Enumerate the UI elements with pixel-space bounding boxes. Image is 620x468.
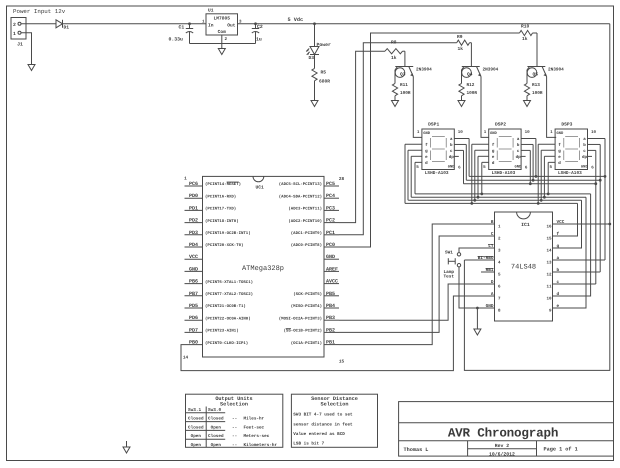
regulator U1 LM7805	[206, 14, 238, 35]
svg-text:PD0: PD0	[189, 193, 198, 199]
svg-text:2N3904: 2N3904	[548, 68, 564, 73]
svg-text:28: 28	[339, 177, 345, 182]
wire IC1 d output	[566, 194, 591, 296]
svg-text:14: 14	[546, 248, 552, 253]
svg-text:(PCINT20-XCK-T0): (PCINT20-XCK-T0)	[205, 243, 243, 248]
svg-text:B: B	[491, 220, 494, 225]
wire PB2 to IC1 C	[339, 236, 481, 332]
svg-text:(ADC0-PCINT8): (ADC0-PCINT8)	[291, 243, 322, 248]
ATmega left pin PD7	[185, 331, 203, 333]
svg-text:(MOSI-OC2A-PCINT3): (MOSI-OC2A-PCINT3)	[279, 316, 322, 321]
svg-text:Selection: Selection	[320, 402, 348, 408]
svg-text:(OC1A-PCINT1): (OC1A-PCINT1)	[291, 341, 322, 346]
svg-text:Q3: Q3	[400, 72, 406, 78]
svg-text:680R: 680R	[319, 79, 330, 85]
svg-text:--: --	[232, 417, 237, 422]
bus line segment a	[469, 175, 605, 177]
svg-text:SW3 BIT 4-7 used to set: SW3 BIT 4-7 used to set	[293, 412, 353, 418]
svg-text:VCC: VCC	[189, 254, 198, 260]
svg-text:IC1: IC1	[521, 222, 530, 228]
svg-text:PC2: PC2	[326, 218, 335, 224]
svg-text:16: 16	[546, 224, 552, 229]
wires DSP3 segment pins a b c	[588, 138, 606, 140]
resistor R5	[312, 68, 317, 80]
svg-text:--: --	[232, 443, 237, 448]
svg-text:Feet-sec: Feet-sec	[244, 425, 265, 430]
svg-text:Rev 2: Rev 2	[495, 443, 510, 449]
svg-text:GND: GND	[189, 266, 198, 272]
ATmega right pin PC0	[324, 246, 339, 248]
wire IC1 e output	[566, 197, 586, 308]
ATmega left pin PD5	[185, 307, 203, 309]
svg-text:SW1: SW1	[445, 251, 453, 256]
junction VCC pin16	[608, 223, 611, 226]
IC1 right pin 9 e	[553, 307, 567, 309]
svg-text:PD1: PD1	[189, 205, 198, 211]
svg-text:13: 13	[546, 260, 552, 265]
svg-text:Selection: Selection	[220, 402, 248, 408]
svg-text:PB2: PB2	[326, 327, 335, 333]
IC1 left pin 7 A	[481, 295, 495, 297]
wire Q5 emitter to DSP3 pin1	[547, 77, 557, 138]
ATmega left pin PD6	[185, 319, 203, 321]
ATmega left pin PB0	[185, 344, 203, 346]
svg-text:b: b	[557, 267, 560, 273]
table Sensor Distance Selection	[291, 394, 377, 447]
IC1 right pin 16 VCC	[553, 223, 567, 225]
svg-text:(PCINT7-XTAL2-TOSC2): (PCINT7-XTAL2-TOSC2)	[205, 292, 253, 297]
svg-text:PB0: PB0	[189, 340, 198, 346]
svg-text:AREF: AREF	[326, 266, 338, 272]
IC1 left pin 1 B	[481, 223, 495, 225]
svg-text:(PCINT16-RXD): (PCINT16-RXD)	[205, 194, 236, 199]
svg-text:Closed: Closed	[208, 433, 224, 439]
svg-text:a: a	[557, 256, 560, 261]
svg-text:PC4: PC4	[326, 193, 335, 199]
svg-text:PB4: PB4	[326, 303, 335, 309]
svg-text:PB1: PB1	[326, 340, 335, 346]
ground Q5	[526, 100, 528, 102]
ground R5	[314, 100, 316, 102]
svg-text:Open: Open	[211, 425, 222, 430]
IC1 right pin 11 c	[553, 283, 567, 285]
ATmega left pin VCC	[185, 258, 203, 260]
svg-text:Kilometers-hr: Kilometers-hr	[244, 442, 278, 448]
svg-text:Open: Open	[211, 443, 222, 448]
IC1 left pin 2 C	[481, 235, 495, 237]
svg-text:(PCINT23-AIN1): (PCINT23-AIN1)	[205, 329, 239, 334]
wire PB1 to IC1 B	[339, 224, 481, 345]
svg-text:10/6/2012: 10/6/2012	[489, 451, 515, 457]
svg-text:AVCC: AVCC	[326, 279, 338, 285]
svg-text:Closed: Closed	[188, 416, 204, 422]
svg-text:Q5: Q5	[533, 72, 539, 78]
svg-text:2: 2	[13, 22, 16, 28]
svg-text:1k: 1k	[522, 36, 528, 42]
bus line segment d	[415, 193, 591, 195]
svg-text:GND: GND	[423, 131, 431, 136]
svg-text:C1: C1	[179, 25, 185, 31]
svg-text:f: f	[557, 231, 560, 237]
svg-text:DSP2: DSP2	[495, 122, 506, 128]
ATmega right pin PC2	[324, 222, 339, 224]
resistor R12	[459, 83, 464, 95]
LED D3	[310, 47, 319, 55]
ATmega right pin AVCC	[324, 283, 339, 285]
svg-text:GND: GND	[448, 164, 456, 169]
IC1 right pin 15 f	[553, 235, 567, 237]
svg-text:PD3: PD3	[189, 230, 198, 236]
svg-text:1: 1	[184, 177, 187, 182]
svg-text:Open: Open	[191, 443, 202, 448]
svg-text:10: 10	[546, 296, 552, 301]
svg-text:--: --	[232, 425, 237, 430]
svg-text:(SCK-PCINT5): (SCK-PCINT5)	[293, 292, 322, 297]
svg-text:(PCINT21-OC0B-T1): (PCINT21-OC0B-T1)	[205, 304, 246, 309]
svg-text:VCC: VCC	[557, 220, 565, 225]
title block frame	[399, 402, 614, 457]
wire VCC to IC1 pin16	[566, 223, 610, 225]
transistor Q5 2N3904	[536, 33, 538, 67]
svg-text:GND: GND	[556, 131, 564, 136]
svg-text:(ADC1-PCINT9): (ADC1-PCINT9)	[291, 231, 322, 236]
wire BI-RBO pin4	[464, 259, 481, 261]
bus line segment f	[405, 202, 578, 204]
wires DSP2 segment pins a b c	[521, 138, 536, 140]
wire PB3 to IC1 D	[339, 284, 481, 320]
svg-text:LSHD-A103: LSHD-A103	[558, 171, 582, 176]
wires DSP2 segment pins f g e d to bus	[472, 143, 489, 145]
svg-text:PC5: PC5	[326, 181, 335, 187]
svg-text:R10: R10	[521, 24, 530, 30]
svg-text:GND: GND	[326, 254, 335, 260]
wire SW1 to GND pin	[459, 267, 481, 308]
svg-text:10: 10	[591, 130, 597, 135]
svg-text:C: C	[491, 232, 494, 237]
svg-text:Open: Open	[191, 434, 202, 439]
svg-text:R5: R5	[321, 70, 327, 76]
junction GND stub	[476, 307, 479, 310]
svg-text:R12: R12	[467, 83, 475, 88]
wire IC1 a output	[566, 259, 605, 261]
ATmega left pin PD2	[185, 222, 203, 224]
display DSP1 LSHD-A103	[422, 129, 454, 170]
wire D1 to U1 input	[63, 23, 207, 25]
IC1 left pin 3 LT	[481, 247, 495, 249]
wires DSP3 segment pins f g e d to bus	[538, 143, 555, 145]
ATmega left pin PB7	[185, 295, 203, 297]
svg-text:1k: 1k	[391, 55, 397, 61]
wire LT to SW1	[459, 248, 481, 252]
svg-text:PD6: PD6	[189, 315, 198, 321]
op-amp U-ATmega328p body	[203, 176, 325, 357]
svg-text:U1: U1	[208, 8, 214, 14]
ATmega left pin PD3	[185, 234, 203, 236]
IC1 left pin 4 BI-RBO	[481, 259, 495, 261]
resistor R10	[520, 30, 533, 35]
ATmega left pin PD1	[185, 209, 203, 211]
ATmega left pin PD4	[185, 246, 203, 248]
ATmega left pin GND	[185, 270, 203, 272]
svg-text:Com: Com	[218, 29, 227, 35]
ground spare	[126, 441, 128, 447]
svg-text:10: 10	[458, 130, 464, 135]
svg-text:PC6: PC6	[189, 181, 198, 187]
svg-text:Out: Out	[227, 23, 236, 29]
ATmega left pin PB6	[185, 283, 203, 285]
svg-text:1k: 1k	[458, 46, 464, 52]
svg-text:D3: D3	[308, 55, 314, 61]
svg-text:2N3904: 2N3904	[416, 68, 432, 73]
svg-text:(PCINT6-XTAL1-TOSC1): (PCINT6-XTAL1-TOSC1)	[205, 280, 253, 285]
svg-text:PD4: PD4	[189, 242, 198, 248]
svg-text:(PCINT22-OC0A-AIN0): (PCINT22-OC0A-AIN0)	[205, 316, 251, 321]
svg-text:DSP3: DSP3	[561, 122, 572, 128]
svg-text:Value entered as BCD: Value entered as BCD	[293, 431, 345, 437]
svg-text:100R: 100R	[467, 91, 478, 96]
svg-text:(PCINT18-INT0): (PCINT18-INT0)	[205, 219, 239, 224]
svg-text:(ADC4-SDA-PCINT12): (ADC4-SDA-PCINT12)	[279, 194, 322, 199]
wire U1 out to 5Vdc	[238, 23, 610, 25]
svg-text:(MISO-PCINT4): (MISO-PCINT4)	[291, 304, 322, 309]
display DSP3 LSHD-A103	[555, 129, 587, 170]
ATmega right pin PC5	[324, 185, 339, 187]
ATmega right pin PC4	[324, 197, 339, 199]
IC1 left pin 5 RBI	[481, 271, 495, 273]
svg-text:100R: 100R	[400, 91, 411, 96]
svg-text:14: 14	[183, 356, 189, 361]
bus line segment g	[408, 199, 581, 201]
IC1 right pin 13 a	[553, 259, 567, 261]
svg-text:PB6: PB6	[189, 279, 198, 285]
svg-text:100R: 100R	[532, 91, 543, 96]
svg-text:1: 1	[13, 31, 16, 37]
svg-text:sensor distance in feet: sensor distance in feet	[293, 421, 353, 427]
resistor R8	[385, 49, 403, 54]
svg-text:PB5: PB5	[326, 291, 335, 297]
svg-text:UC1: UC1	[256, 185, 265, 191]
svg-text:R13: R13	[532, 83, 540, 88]
IC1 right pin 14 g	[553, 247, 567, 249]
svg-text:A: A	[491, 292, 494, 297]
svg-text:Power Input 12v: Power Input 12v	[13, 8, 66, 15]
wire PC2 to R8 net	[339, 51, 385, 222]
svg-text:(ADC3-PCINT11): (ADC3-PCINT11)	[288, 207, 322, 212]
svg-text:R11: R11	[400, 83, 408, 88]
ground IC1	[476, 308, 478, 329]
diode D1	[56, 20, 63, 28]
svg-text:15: 15	[339, 360, 345, 365]
svg-text:GND: GND	[581, 164, 589, 169]
svg-text:Test: Test	[444, 275, 455, 280]
svg-text:--: --	[232, 434, 237, 439]
bus line segment c	[464, 183, 596, 185]
svg-text:(SS-OC1B-PCINT2): (SS-OC1B-PCINT2)	[284, 329, 322, 334]
IC1 left pin 6 D	[481, 283, 495, 285]
wire IC1 g output	[566, 200, 582, 248]
IC1 right pin 12 b	[553, 271, 567, 273]
ATmega right pin GND	[324, 258, 339, 260]
svg-text:R9: R9	[457, 34, 463, 40]
svg-text:PC3: PC3	[326, 205, 335, 211]
svg-text:2N3904: 2N3904	[483, 68, 499, 73]
wires DSP1 segment pins a b c	[454, 138, 469, 140]
wire J1 pin2 to D1	[21, 23, 56, 25]
wire Q4 emitter to DSP2 pin1	[481, 77, 489, 138]
ATmega right pin AREF	[324, 270, 339, 272]
svg-text:Miles-hr: Miles-hr	[244, 416, 265, 422]
svg-text:PC1: PC1	[326, 230, 335, 236]
bus line segment b	[466, 179, 600, 181]
svg-text:LSHD-A103: LSHD-A103	[492, 171, 516, 176]
svg-text:(PCINT0-CLKO-ICP1): (PCINT0-CLKO-ICP1)	[205, 341, 248, 346]
transistor Q4 2N3904	[470, 43, 472, 67]
svg-text:PD5: PD5	[189, 303, 198, 309]
svg-text:C2: C2	[257, 24, 263, 30]
wires DSP1 segment pins f g e d to bus	[405, 143, 422, 145]
svg-text:(PCINT14-RESET): (PCINT14-RESET)	[205, 182, 241, 187]
svg-text:Thomas L: Thomas L	[404, 447, 429, 453]
wire Q3 emitter to DSP1 pin1	[413, 77, 422, 138]
wire D3 to R5	[314, 55, 316, 69]
svg-text:(PCINT19-OC2B-INT1): (PCINT19-OC2B-INT1)	[205, 231, 251, 236]
svg-text:PD2: PD2	[189, 218, 198, 224]
bus line segment e	[411, 196, 586, 198]
wire GND pin8	[459, 307, 495, 309]
ground J1	[31, 64, 33, 66]
ground U1	[221, 44, 223, 49]
ATmega right pin PB2	[324, 331, 339, 333]
ATmega right pin PB1	[324, 344, 339, 346]
resistor R11	[392, 83, 397, 95]
ATmega left pin PD0	[185, 197, 203, 199]
svg-text:d: d	[557, 291, 560, 297]
wire J1 pin1 to ground	[21, 33, 32, 65]
svg-text:R8: R8	[391, 40, 397, 46]
ATmega right pin PC3	[324, 209, 339, 211]
svg-text:PC0: PC0	[326, 242, 335, 248]
svg-text:(ADC2-PCINT10): (ADC2-PCINT10)	[288, 219, 322, 224]
wire 5V to LED D3	[313, 22, 316, 25]
svg-text:(ADC5-SCL-PCINT13): (ADC5-SCL-PCINT13)	[279, 182, 322, 187]
svg-text:0.33u: 0.33u	[169, 37, 184, 43]
svg-text:D: D	[491, 280, 494, 285]
wire R5 to ground	[314, 81, 316, 101]
svg-text:(PCINT17-TXD): (PCINT17-TXD)	[205, 207, 236, 212]
ATmega left pin PC6	[185, 185, 203, 187]
table Output Units Selection	[186, 394, 283, 447]
wire PC0 to R10 net	[339, 33, 520, 247]
svg-text:J1: J1	[17, 42, 23, 48]
svg-text:D1: D1	[64, 25, 70, 31]
ATmega right pin PB3	[324, 319, 339, 321]
svg-text:10: 10	[525, 130, 531, 135]
wire PC1 to R9 net	[339, 43, 457, 235]
svg-text:15: 15	[546, 236, 552, 241]
svg-text:Q4: Q4	[467, 72, 473, 78]
svg-text:In: In	[208, 23, 214, 29]
svg-text:GND: GND	[490, 131, 498, 136]
svg-text:LM7805: LM7805	[214, 15, 231, 21]
svg-text:Closed: Closed	[208, 416, 224, 422]
wire IC1 f output	[566, 203, 578, 236]
connector J1	[11, 18, 26, 40]
wire IC1 c output	[566, 283, 596, 285]
op-amp IC1 74LS48 body	[495, 212, 553, 321]
IC1 left pin 8 GND	[481, 307, 495, 309]
wire IC1 b output	[566, 271, 600, 273]
wire PB0 pin14 to IC1 A	[181, 296, 481, 371]
svg-text:5 Vdc: 5 Vdc	[288, 17, 304, 23]
svg-text:11: 11	[546, 284, 552, 289]
svg-text:74LS48: 74LS48	[511, 264, 536, 272]
svg-text:LSHD-A103: LSHD-A103	[425, 171, 449, 176]
svg-text:ATMega328p: ATMega328p	[242, 265, 284, 273]
IC1 right pin 10 d	[553, 295, 567, 297]
svg-text:g: g	[557, 244, 560, 249]
transistor Q3 2N3904	[404, 51, 406, 66]
svg-text:Page 1 of 1: Page 1 of 1	[544, 447, 578, 453]
wire U1 com to rail	[221, 35, 223, 44]
ground Q3	[394, 100, 396, 102]
ATmega right pin PB5	[324, 295, 339, 297]
svg-text:1u: 1u	[256, 37, 262, 43]
svg-text:Meters-sec: Meters-sec	[244, 434, 270, 439]
ground Q4	[461, 100, 463, 102]
svg-text:PD7: PD7	[189, 327, 198, 333]
resistor R13	[524, 83, 529, 95]
svg-text:DSP1: DSP1	[428, 122, 439, 128]
svg-text:Power: Power	[317, 42, 332, 48]
svg-text:PB7: PB7	[189, 291, 198, 297]
svg-text:AVR Chronograph: AVR Chronograph	[448, 427, 558, 441]
svg-text:GND: GND	[515, 164, 523, 169]
svg-text:LSB is bit 7: LSB is bit 7	[293, 441, 324, 447]
rail under regulator	[190, 43, 256, 45]
ATmega right pin PC1	[324, 234, 339, 236]
resistor R9	[457, 40, 470, 45]
svg-text:Closed: Closed	[188, 424, 204, 430]
display DSP2 LSHD-A103	[489, 129, 521, 170]
svg-text:PB3: PB3	[326, 315, 335, 321]
svg-text:12: 12	[546, 272, 552, 277]
svg-text:e: e	[557, 304, 560, 309]
wire VCC loop to BI-RBO	[464, 224, 609, 370]
ATmega right pin PB4	[324, 307, 339, 309]
wire 5V rail right side down	[609, 24, 611, 224]
svg-text:c: c	[557, 280, 560, 285]
